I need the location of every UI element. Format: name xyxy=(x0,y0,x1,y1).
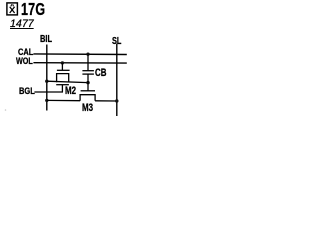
label M3 xyxy=(82,103,93,114)
node: BIL junction to M2 source xyxy=(45,80,48,83)
label CAL xyxy=(18,48,33,58)
label BIL xyxy=(40,35,52,45)
label SL xyxy=(112,36,121,47)
capacitor CB top plate xyxy=(82,70,94,72)
label M2 xyxy=(65,86,76,97)
node: CAL junction to CB top xyxy=(86,53,89,56)
transistor M3 gate bar xyxy=(81,90,95,92)
wire bottom right: M3 to SL xyxy=(95,100,117,102)
node: storage junction at CB bottom xyxy=(86,81,90,85)
reference numeral 1477 xyxy=(10,19,34,30)
transistor M2 backgate bar xyxy=(56,84,69,86)
capacitor CB bottom stem / transistor M3 gate stem xyxy=(87,74,89,91)
wire WOL horizontal xyxy=(33,62,126,64)
figure title text 17G xyxy=(21,1,45,18)
capacitor CB bottom plate xyxy=(82,73,94,75)
transistor M2 channel and source/drain legs xyxy=(57,74,69,83)
wire SL vertical xyxy=(116,44,118,116)
transistor M2 backgate stem to BGL xyxy=(61,85,63,92)
transistor M2 gate bar xyxy=(57,69,70,71)
kanji glyph 図 of title xyxy=(7,3,18,15)
transistor M2 gate stem xyxy=(61,63,63,70)
wire BIL vertical xyxy=(46,45,48,111)
label BGL xyxy=(19,87,35,97)
wire bottom left: BIL to M3 xyxy=(47,99,80,101)
node: M2 gate junction on WOL xyxy=(61,61,64,64)
transistor M3 channel and source/drain legs xyxy=(80,95,95,101)
wire CAL horizontal xyxy=(33,53,126,56)
label WOL xyxy=(16,57,33,67)
wire BGL horizontal xyxy=(34,91,63,93)
capacitor CB top stem xyxy=(87,54,89,70)
label CB xyxy=(95,68,106,79)
wire storage node: BIL dot under M2 to CB stem xyxy=(47,81,88,82)
node: SL junction xyxy=(115,99,118,102)
faint scan speck xyxy=(5,109,7,111)
node: BIL junction to M3 drain xyxy=(45,99,48,102)
